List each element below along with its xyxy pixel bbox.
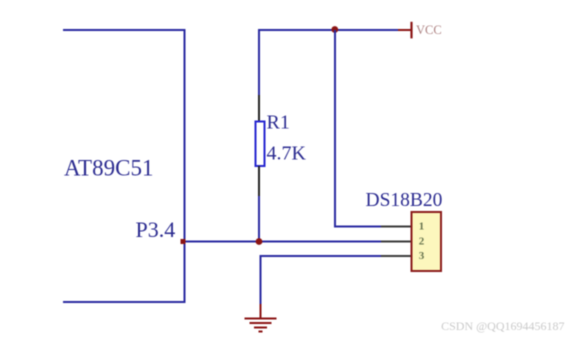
svg-text:4.7K: 4.7K — [267, 143, 307, 165]
svg-text:3: 3 — [419, 250, 425, 262]
DS18B20 pin 1 lead — [381, 226, 412, 228]
junction dot at P3.4/R1 node — [256, 238, 263, 245]
wire: VCC net vertical down to DS18B20 pin 1 — [334, 30, 336, 228]
svg-text:2: 2 — [419, 235, 425, 247]
wire: vertical down to ground — [260, 255, 262, 304]
svg-text:P3.4: P3.4 — [136, 217, 176, 242]
wire: resistor bottom to P3.4 net — [258, 196, 260, 242]
sensor DS18B20 body — [412, 212, 442, 271]
DS18B20 pin 2 lead — [381, 241, 412, 243]
pin connection dot at P3.4 — [181, 239, 186, 244]
power symbol VCC: red stub — [398, 29, 411, 31]
IC U? AT89C51 body outline (open left side) — [63, 29, 186, 303]
DS18B20 pin 3 lead — [381, 255, 412, 257]
resistor R1 top pin lead — [258, 95, 260, 122]
power symbol VCC: bar — [410, 22, 412, 39]
resistor R1 bottom pin lead — [258, 166, 260, 196]
wire: vertical down to resistor R1 top lead — [258, 29, 260, 95]
svg-text:R1: R1 — [267, 112, 290, 134]
resistor R1 body — [256, 122, 265, 167]
junction dot on VCC net — [331, 26, 338, 33]
wire: P3.4 horizontal net to DS18B20 pin 2 — [185, 241, 381, 243]
wire: DS18B20 pin 3 horizontal to ground branch — [261, 255, 382, 257]
svg-text:VCC: VCC — [416, 23, 442, 37]
wire: top horizontal from resistor branch to VCC — [258, 29, 398, 31]
wire: horizontal to DS18B20 pin 1 — [334, 226, 381, 228]
svg-text:1: 1 — [419, 221, 425, 233]
ground symbol — [245, 304, 277, 332]
svg-text:AT89C51: AT89C51 — [64, 156, 153, 181]
svg-text:DS18B20: DS18B20 — [366, 190, 443, 211]
svg-text:CSDN @QQ1694456187: CSDN @QQ1694456187 — [441, 319, 564, 333]
